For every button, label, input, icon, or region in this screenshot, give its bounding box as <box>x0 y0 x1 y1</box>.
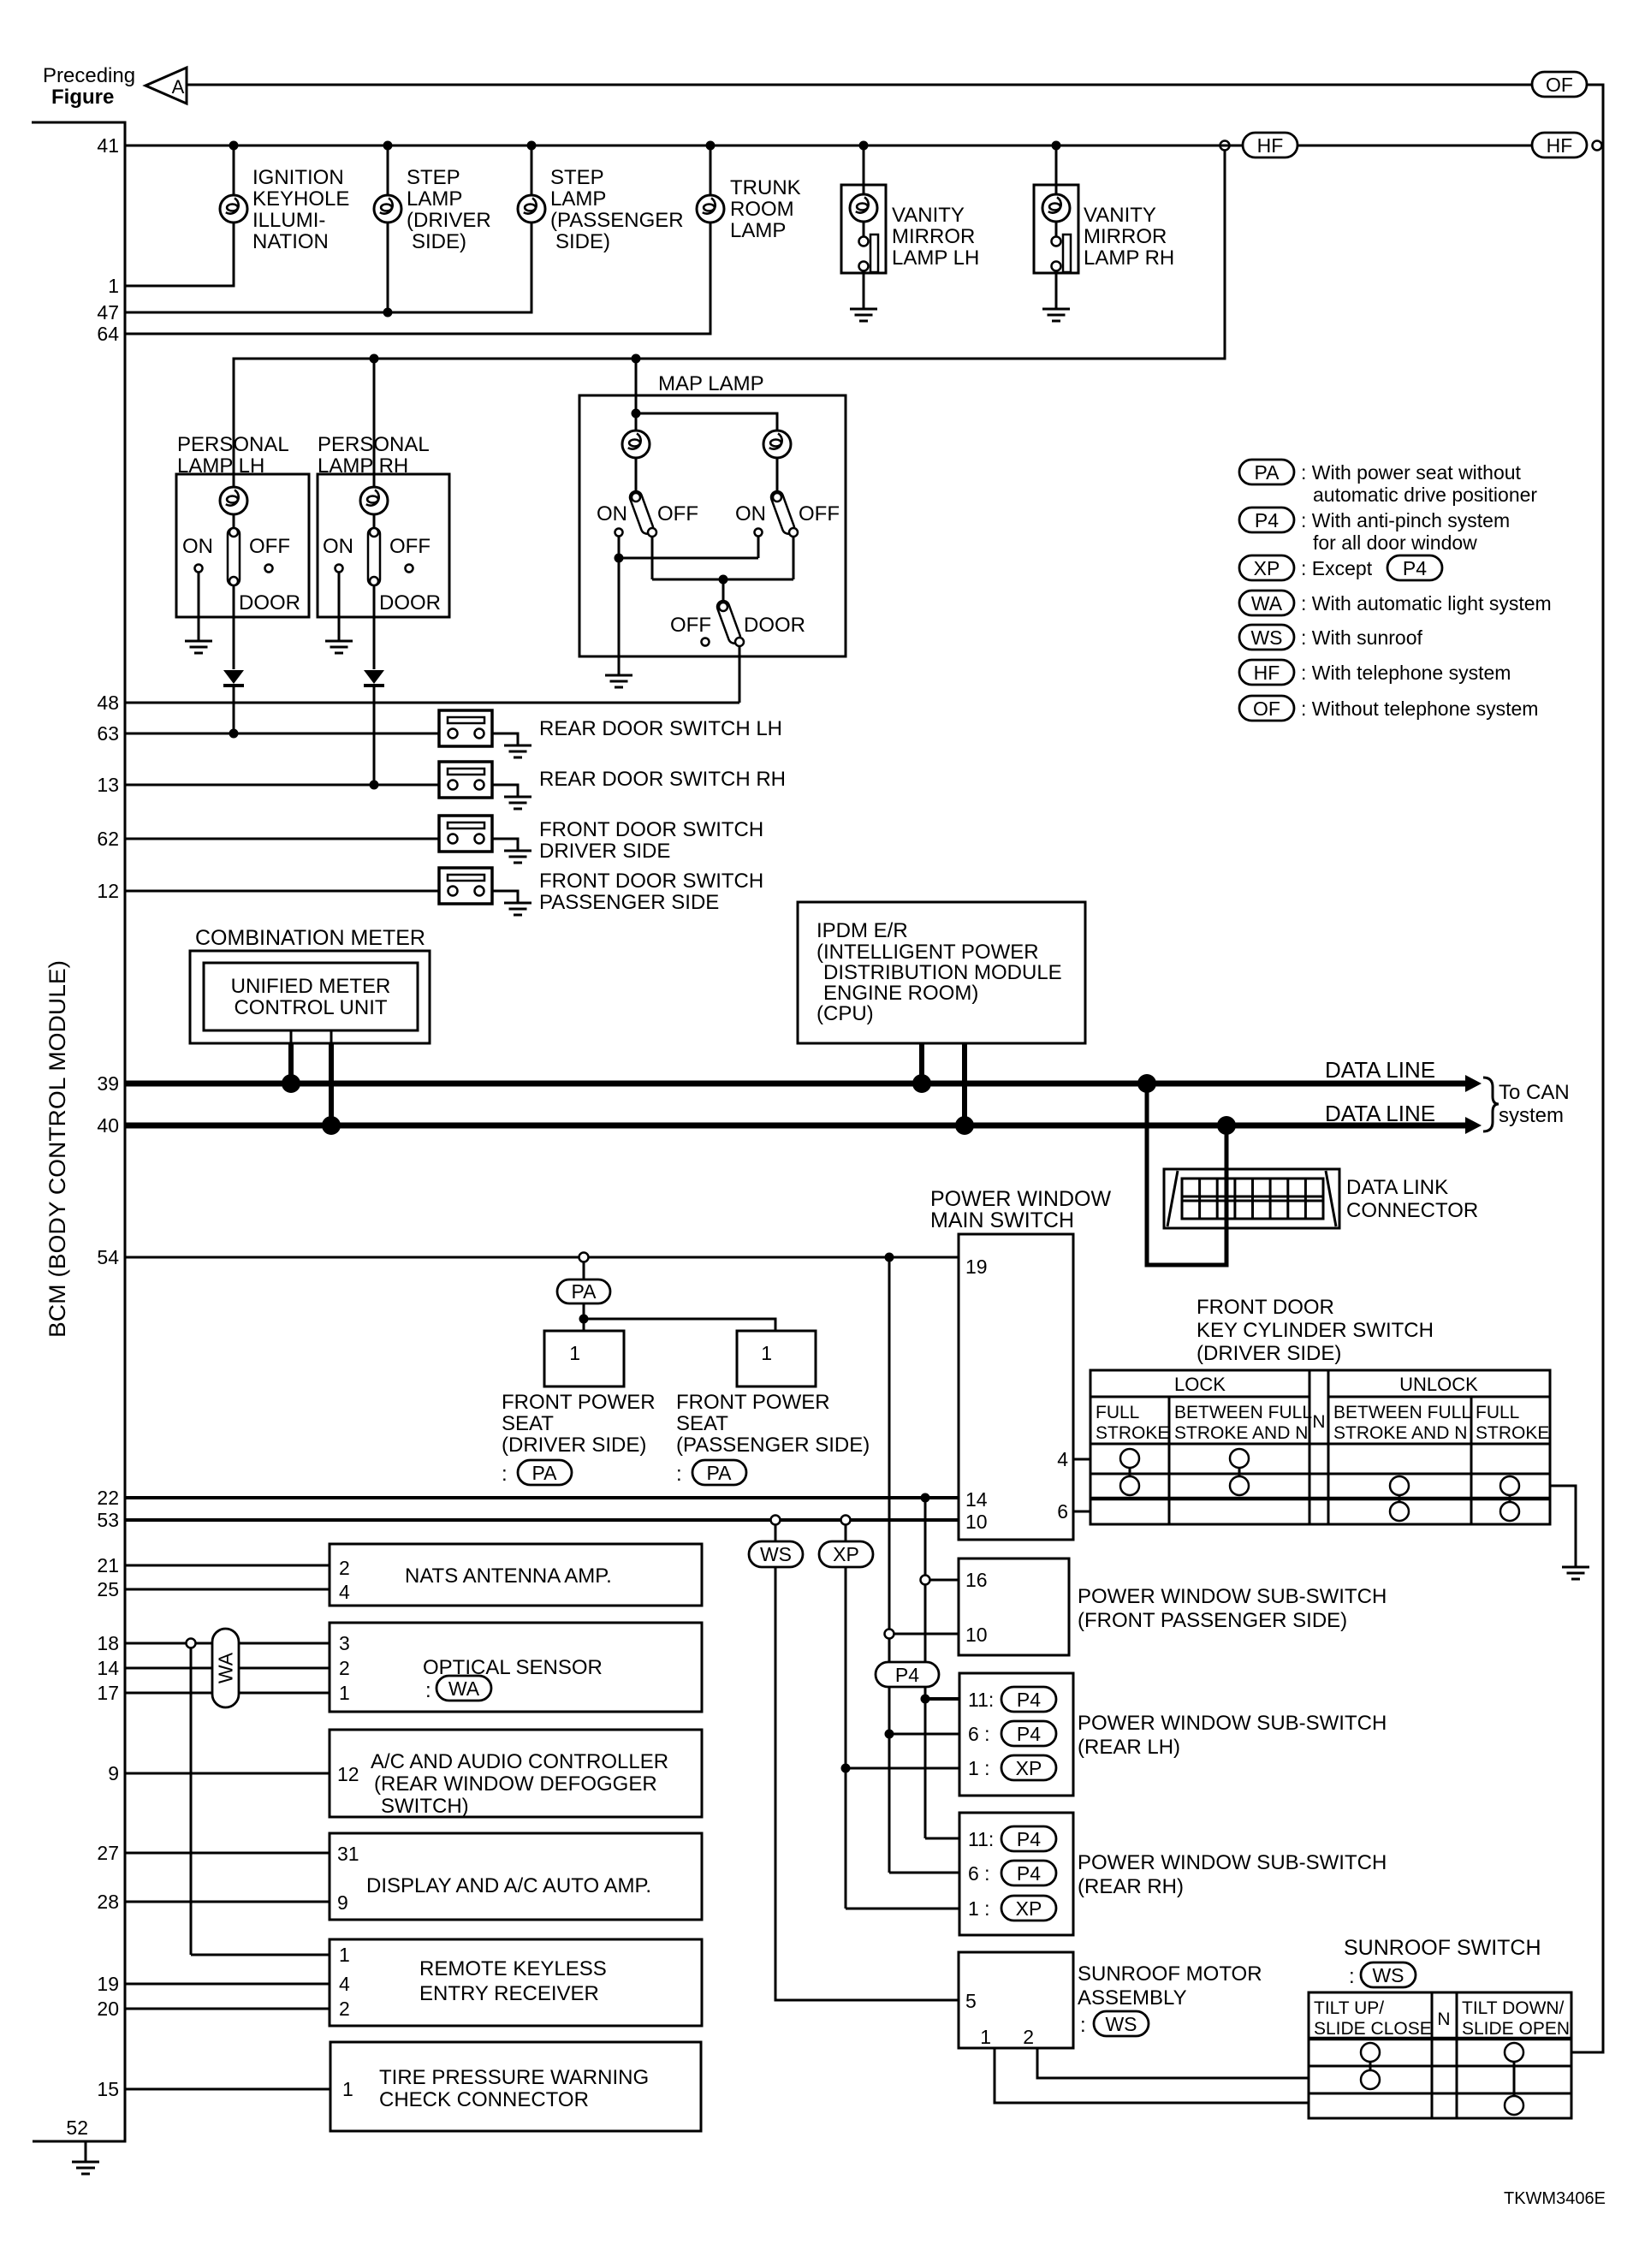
oval tag PA (driver seat) <box>518 1460 572 1485</box>
wire BCM pin 63 <box>125 729 439 739</box>
REAR DOOR SWITCH RH <box>439 762 786 809</box>
svg-text:FRONT POWER: FRONT POWER <box>676 1391 830 1414</box>
wire key cylinder to ground <box>1550 1486 1576 1567</box>
svg-text:P4: P4 <box>895 1664 919 1686</box>
svg-text:ON: ON <box>182 535 213 558</box>
svg-text:PASSENGER SIDE: PASSENGER SIDE <box>539 891 719 914</box>
oval tag WS (sunroof motor) <box>1094 2011 1149 2036</box>
svg-text:1: 1 <box>569 1342 580 1364</box>
wire meter to data line 39 <box>290 1030 293 1084</box>
svg-text:ROOM: ROOM <box>730 198 794 221</box>
svg-text:14: 14 <box>965 1488 988 1511</box>
FRONT DOOR SWITCH PASSENGER SIDE <box>439 868 763 915</box>
wire BCM pin 48 <box>125 702 739 704</box>
svg-text:P4: P4 <box>1017 1689 1041 1711</box>
svg-text:6: 6 <box>1057 1500 1068 1523</box>
svg-text:Figure: Figure <box>51 86 114 109</box>
svg-text:10: 10 <box>965 1624 988 1646</box>
svg-text:WS: WS <box>1105 2013 1137 2035</box>
FRONT DOOR SWITCH DRIVER SIDE <box>439 816 763 863</box>
svg-text:BCM (BODY CONTROL MODULE): BCM (BODY CONTROL MODULE) <box>45 960 70 1338</box>
svg-text:: With anti-pinch system: : With anti-pinch system <box>1301 509 1510 531</box>
svg-text:OFF: OFF <box>670 614 711 637</box>
lamp TRUNK ROOM LAMP <box>697 145 801 242</box>
svg-text:2: 2 <box>339 1998 350 2020</box>
legend P4 <box>1239 508 1510 554</box>
svg-text:(REAR RH): (REAR RH) <box>1078 1875 1184 1898</box>
svg-text:FULL: FULL <box>1476 1403 1519 1422</box>
svg-text:LAMP: LAMP <box>407 187 462 211</box>
svg-text:19: 19 <box>965 1256 988 1278</box>
svg-text:XP: XP <box>1016 1897 1042 1920</box>
svg-text:NATION: NATION <box>252 230 329 253</box>
lamp VANITY MIRROR LAMP LH <box>841 145 979 309</box>
wire BCM pin 53 <box>125 1518 959 1522</box>
wire data line taps to data link connector <box>1147 1084 1226 1265</box>
FRONT POWER SEAT (DRIVER SIDE) <box>502 1331 656 1486</box>
svg-text:9: 9 <box>108 1762 119 1784</box>
svg-text:: With power seat without: : With power seat without <box>1301 461 1522 484</box>
svg-text:REAR DOOR SWITCH LH: REAR DOOR SWITCH LH <box>539 717 782 740</box>
svg-text:18: 18 <box>97 1632 119 1654</box>
wire BCM pin 47 <box>125 223 531 312</box>
wire rear RH pin 1 (XP) <box>846 1908 959 1910</box>
svg-text:POWER WINDOW SUB-SWITCH: POWER WINDOW SUB-SWITCH <box>1078 1851 1387 1874</box>
svg-text:VANITY: VANITY <box>892 204 965 227</box>
svg-text:5: 5 <box>965 1990 977 2012</box>
svg-text:UNIFIED METER: UNIFIED METER <box>231 975 391 998</box>
ground vanity LH <box>850 309 877 321</box>
svg-text:DOOR: DOOR <box>744 614 805 637</box>
svg-text:11:: 11: <box>968 1828 994 1850</box>
svg-text:28: 28 <box>97 1891 119 1913</box>
oval tag P4 (branch pair) <box>876 1662 939 1687</box>
key cylinder contacts UNLOCK between <box>1390 1476 1409 1521</box>
POWER WINDOW SUB-SWITCH (REAR RH) <box>959 1813 1387 1935</box>
svg-text:: Except: : Except <box>1301 557 1373 579</box>
wire map lamp ON bus <box>615 554 759 676</box>
svg-text:(DRIVER SIDE): (DRIVER SIDE) <box>1197 1342 1341 1365</box>
junction map lamp tap <box>632 354 641 396</box>
legend XP <box>1239 555 1442 580</box>
svg-text:HF: HF <box>1547 134 1573 157</box>
wire XP down <box>845 1567 847 1909</box>
wire BCM pin 14 <box>125 1667 330 1670</box>
node pin 16 branch <box>921 1576 959 1585</box>
svg-text:TIRE PRESSURE WARNING: TIRE PRESSURE WARNING <box>379 2066 649 2089</box>
SUNROOF MOTOR ASSEMBLY <box>959 1952 1262 2048</box>
svg-text:PA: PA <box>707 1462 733 1484</box>
junction rear LH pin 1 (XP) <box>841 1764 960 1773</box>
svg-text:4: 4 <box>339 1581 350 1603</box>
svg-text:FRONT DOOR SWITCH: FRONT DOOR SWITCH <box>539 870 763 893</box>
svg-text:ENGINE ROOM): ENGINE ROOM) <box>823 982 978 1005</box>
svg-text:4: 4 <box>1057 1448 1068 1470</box>
svg-text:P4: P4 <box>1017 1862 1041 1885</box>
svg-text:TRUNK: TRUNK <box>730 176 801 199</box>
svg-text:P4: P4 <box>1255 509 1279 531</box>
REAR DOOR SWITCH LH <box>439 710 782 757</box>
junction rear LH pin 11 <box>921 1695 960 1704</box>
svg-text:48: 48 <box>97 692 119 714</box>
wire BCM pin 13 <box>125 781 439 790</box>
lamp STEP LAMP (PASSENGER SIDE) <box>518 145 684 253</box>
key cylinder switch table <box>1090 1370 1550 1524</box>
NATS ANTENNA AMP. <box>330 1544 702 1606</box>
svg-text:41: 41 <box>97 134 119 157</box>
svg-text:ASSEMBLY: ASSEMBLY <box>1078 1986 1187 2010</box>
wire BCM pin 41 rail <box>125 145 1243 147</box>
svg-text:53: 53 <box>97 1509 119 1531</box>
svg-text:SWITCH): SWITCH) <box>381 1795 469 1818</box>
svg-text:1: 1 <box>108 275 119 297</box>
wire BCM pin 64 <box>125 223 710 334</box>
svg-text:OF: OF <box>1253 698 1280 720</box>
svg-text:LAMP RH: LAMP RH <box>1084 246 1174 270</box>
BCM (Body Control Module) outline <box>32 122 125 2141</box>
ground BCM pin 52 <box>72 2141 99 2174</box>
wire BCM pin 9 <box>125 1772 330 1775</box>
svg-text:DOOR: DOOR <box>379 591 441 614</box>
ground key cylinder switch <box>1562 1567 1589 1579</box>
svg-text:SUNROOF MOTOR: SUNROOF MOTOR <box>1078 1962 1262 1986</box>
diode personal lamp LH <box>223 670 244 733</box>
svg-text:LAMP: LAMP <box>730 219 786 242</box>
svg-text:1: 1 <box>339 1682 350 1704</box>
svg-text:STROKE AND N: STROKE AND N <box>1333 1423 1467 1443</box>
wire meter to data line 40 <box>330 1030 333 1125</box>
oval tag OF (top right) <box>1532 72 1587 97</box>
svg-text::: : <box>1080 2014 1086 2037</box>
svg-text:DISPLAY AND A/C AUTO AMP.: DISPLAY AND A/C AUTO AMP. <box>366 1874 651 1897</box>
svg-text:BETWEEN FULL: BETWEEN FULL <box>1333 1403 1471 1422</box>
junction rear LH pin 6 <box>885 1730 960 1739</box>
svg-text:6 :: 6 : <box>968 1723 990 1745</box>
svg-text:SEAT: SEAT <box>502 1412 554 1435</box>
wire sunroof motor pin 1 to switch <box>995 2048 1309 2103</box>
svg-text:3: 3 <box>339 1632 350 1654</box>
svg-text:STROKE: STROKE <box>1096 1423 1169 1443</box>
wire sunroof motor pin 2 to switch <box>1037 2048 1309 2078</box>
wire BCM pin 27 <box>125 1852 330 1855</box>
ground personal lamp RH <box>325 641 353 653</box>
svg-text:2: 2 <box>1023 2026 1034 2048</box>
svg-text:NATS ANTENNA AMP.: NATS ANTENNA AMP. <box>405 1564 612 1588</box>
svg-text:XP: XP <box>1254 557 1280 579</box>
svg-text:47: 47 <box>97 301 119 324</box>
svg-text::: : <box>502 1463 508 1486</box>
svg-text:DATA LINK: DATA LINK <box>1346 1176 1448 1199</box>
junction lamp taps on line 41 <box>229 141 1061 151</box>
svg-text:STEP: STEP <box>550 166 604 189</box>
svg-text:(REAR LH): (REAR LH) <box>1078 1736 1180 1759</box>
wire second rail (interior lamp feed) <box>234 150 1225 487</box>
svg-text::: : <box>1349 1965 1355 1988</box>
svg-text:for all door window: for all door window <box>1313 531 1477 554</box>
wire BCM pin 1 <box>125 223 234 286</box>
svg-text:ON: ON <box>323 535 353 558</box>
key cylinder contacts LOCK between <box>1230 1449 1249 1495</box>
oval tag WS (sunroof switch) <box>1361 1962 1416 1987</box>
junctions data line 39 <box>282 1074 1156 1093</box>
svg-text:(INTELLIGENT POWER: (INTELLIGENT POWER <box>817 941 1039 964</box>
svg-text:LAMP: LAMP <box>550 187 606 211</box>
svg-text:6 :: 6 : <box>968 1862 990 1885</box>
svg-text:62: 62 <box>97 828 119 850</box>
legend WA <box>1239 591 1552 615</box>
lamp IGNITION KEYHOLE ILLUMINATION <box>220 145 349 253</box>
svg-text:PERSONAL: PERSONAL <box>177 433 289 456</box>
svg-text:ENTRY RECEIVER: ENTRY RECEIVER <box>419 1982 599 2005</box>
svg-text:LAMP LH: LAMP LH <box>892 246 979 270</box>
svg-text:16: 16 <box>965 1569 988 1591</box>
wire BCM pin 15 <box>125 2088 330 2091</box>
svg-text:OFF: OFF <box>249 535 290 558</box>
BCM pin number labels <box>66 134 119 2139</box>
svg-text:(REAR WINDOW DEFOGGER: (REAR WINDOW DEFOGGER <box>374 1772 657 1796</box>
wire IPDM to data line 40 <box>962 1043 967 1125</box>
svg-text:15: 15 <box>97 2078 119 2100</box>
oval tag WA (optical sensor) <box>436 1676 491 1701</box>
svg-text:REMOTE KEYLESS: REMOTE KEYLESS <box>419 1957 607 1980</box>
oval tag WS <box>749 1541 803 1567</box>
wire rear RH pin 6 <box>889 1872 959 1874</box>
DISPLAY AND A/C AUTO AMP. <box>330 1833 702 1920</box>
svg-text:PA: PA <box>1255 461 1280 484</box>
svg-text:DRIVER SIDE: DRIVER SIDE <box>539 840 670 863</box>
A/C AND AUDIO CONTROLLER <box>330 1730 702 1818</box>
svg-text:4: 4 <box>339 1973 350 1995</box>
svg-text:XP: XP <box>833 1543 859 1565</box>
wire IPDM to data line 39 <box>919 1043 924 1084</box>
svg-text:VANITY: VANITY <box>1084 204 1156 227</box>
svg-text:52: 52 <box>66 2117 88 2139</box>
svg-text:automatic drive positioner: automatic drive positioner <box>1313 484 1537 506</box>
legend OF <box>1239 696 1538 721</box>
svg-text:TKWM3406E: TKWM3406E <box>1504 2189 1606 2208</box>
wire main switch pin 4 to key cylinder <box>1073 1458 1090 1461</box>
svg-text:TILT UP/: TILT UP/ <box>1314 1998 1384 2018</box>
diode personal lamp RH <box>364 670 384 785</box>
svg-text:1 :: 1 : <box>968 1897 990 1920</box>
svg-text:OFF: OFF <box>799 502 840 525</box>
svg-text:63: 63 <box>97 722 119 745</box>
svg-text:1: 1 <box>339 1944 350 1966</box>
oval tag WA (vertical) <box>212 1629 239 1707</box>
wire BCM pin 62 <box>125 838 439 840</box>
ground map lamp <box>605 675 632 687</box>
svg-text:17: 17 <box>97 1682 119 1704</box>
junction pin47 / step lamp driver <box>383 223 393 318</box>
svg-text:2: 2 <box>339 1657 350 1679</box>
FRONT POWER SEAT (PASSENGER SIDE) <box>676 1331 870 1486</box>
svg-text:19: 19 <box>97 1973 119 1995</box>
wire BCM pin 20 <box>125 2008 330 2010</box>
svg-text:40: 40 <box>97 1114 119 1137</box>
svg-text:WA: WA <box>1251 592 1283 614</box>
svg-text:KEY CYLINDER SWITCH: KEY CYLINDER SWITCH <box>1197 1319 1434 1342</box>
svg-text:39: 39 <box>97 1072 119 1095</box>
wire BCM pin 54 <box>125 1256 959 1259</box>
svg-text:54: 54 <box>97 1246 119 1268</box>
legend WS <box>1239 625 1422 650</box>
BCM label <box>45 960 70 1338</box>
svg-text:(CPU): (CPU) <box>817 1002 874 1025</box>
svg-text:21: 21 <box>97 1554 119 1576</box>
svg-text:: Without telephone system: : Without telephone system <box>1301 698 1538 720</box>
switch map lamp LH (ON/OFF) <box>597 490 698 579</box>
wire WA branch to remote keyless pin 1 <box>191 1954 330 1956</box>
svg-text:10: 10 <box>965 1511 988 1533</box>
svg-text:20: 20 <box>97 1998 119 2020</box>
node XP branch <box>841 1516 851 1542</box>
lamp STEP LAMP (DRIVER SIDE) <box>374 145 491 253</box>
brace To CAN system <box>1483 1078 1570 1131</box>
svg-text:SIDE): SIDE) <box>412 230 466 253</box>
svg-text::: : <box>676 1463 682 1486</box>
oval tag P4 (rear LH pin 11) <box>1001 1687 1056 1712</box>
svg-text:To CAN: To CAN <box>1499 1081 1570 1104</box>
svg-text:TILT DOWN/: TILT DOWN/ <box>1462 1998 1565 2018</box>
oval tag HF (right) <box>1532 133 1587 157</box>
svg-text:DATA LINE: DATA LINE <box>1325 1101 1435 1126</box>
wire BCM pin 17 <box>125 1692 330 1695</box>
svg-text:FRONT POWER: FRONT POWER <box>502 1391 656 1414</box>
wire BCM pin 39 data line <box>125 1057 1482 1092</box>
svg-text:BETWEEN FULL: BETWEEN FULL <box>1174 1403 1312 1422</box>
sunroof switch contacts tilt down <box>1505 2043 1523 2115</box>
svg-text:WS: WS <box>1250 626 1282 649</box>
wire BCM pin 12 <box>125 890 439 893</box>
wire map lamp OFF bus <box>652 575 793 603</box>
svg-text:25: 25 <box>97 1578 119 1600</box>
svg-text:REAR DOOR SWITCH RH: REAR DOOR SWITCH RH <box>539 768 786 791</box>
junction pin54 to sub-switch vertical A <box>885 1253 894 1873</box>
wire main switch pin 6 to key cylinder <box>1073 1511 1090 1513</box>
wire OF to right edge, down to sunroof switch <box>1571 85 1603 2052</box>
svg-text:LOCK: LOCK <box>1174 1374 1226 1395</box>
oval tag P4 (rear LH pin 6) <box>1001 1721 1056 1746</box>
svg-text:WS: WS <box>760 1543 792 1565</box>
wire between HF tags <box>1298 145 1532 147</box>
svg-text:ON: ON <box>597 502 627 525</box>
svg-text:FULL: FULL <box>1096 1403 1139 1422</box>
svg-text:SEAT: SEAT <box>676 1412 728 1435</box>
svg-text:13: 13 <box>97 774 119 796</box>
svg-text:A: A <box>172 76 185 98</box>
lamp VANITY MIRROR LAMP RH <box>1034 145 1174 309</box>
TIRE PRESSURE WARNING CHECK CONNECTOR <box>330 2042 701 2131</box>
svg-text:N: N <box>1437 2010 1450 2029</box>
svg-text:N: N <box>1312 1412 1325 1432</box>
node WS branch <box>771 1516 781 1542</box>
svg-text:1: 1 <box>342 2078 353 2100</box>
svg-text:system: system <box>1499 1104 1564 1127</box>
ground vanity RH <box>1042 309 1070 321</box>
svg-text:UNLOCK: UNLOCK <box>1399 1374 1478 1395</box>
IPDM E/R box <box>798 902 1085 1043</box>
TKWM3406E <box>1504 2189 1606 2208</box>
map lamp internal feed <box>632 395 778 430</box>
svg-text:STROKE: STROKE <box>1476 1423 1549 1443</box>
POWER WINDOW MAIN SWITCH <box>930 1187 1111 1540</box>
POWER WINDOW SUB-SWITCH (FRONT PASSENGER SIDE) <box>959 1559 1387 1655</box>
COMBINATION METER <box>190 926 430 1043</box>
oval tag P4 (rear RH pin 11) <box>1001 1826 1056 1851</box>
oval tag XP <box>819 1541 873 1567</box>
oval tag PA (branch) <box>557 1279 610 1303</box>
svg-text:STEP: STEP <box>407 166 460 189</box>
oval tag P4 (rear RH pin 6) <box>1001 1861 1056 1885</box>
wire BCM pin 18 <box>125 1642 330 1645</box>
svg-text:XP: XP <box>1016 1757 1042 1779</box>
wire rear RH pin 11 <box>925 1838 959 1840</box>
svg-text:(PASSENGER: (PASSENGER <box>550 209 684 232</box>
svg-text:(DRIVER: (DRIVER <box>407 209 491 232</box>
svg-text:WA: WA <box>215 1652 237 1683</box>
sunroof switch contacts tilt up <box>1361 2043 1380 2089</box>
svg-text:27: 27 <box>97 1842 119 1864</box>
svg-text:WS: WS <box>1372 1964 1404 1986</box>
Preceding Figure label <box>43 64 135 109</box>
svg-text:MIRROR: MIRROR <box>1084 225 1167 248</box>
oval tag XP (rear LH pin 1) <box>1001 1755 1056 1780</box>
svg-text:MIRROR: MIRROR <box>892 225 975 248</box>
wire BCM pin 40 data line <box>125 1101 1482 1134</box>
DATA LINK CONNECTOR <box>1164 1169 1478 1228</box>
node WA branch (open circle on line 18) <box>187 1639 196 1956</box>
svg-text:POWER WINDOW: POWER WINDOW <box>930 1187 1111 1211</box>
svg-text:MAIN SWITCH: MAIN SWITCH <box>930 1208 1074 1232</box>
svg-text:SIDE): SIDE) <box>555 230 610 253</box>
wire BCM pin 19 <box>125 1983 330 1986</box>
svg-text:KEYHOLE: KEYHOLE <box>252 187 349 211</box>
svg-text:ILLUMI-: ILLUMI- <box>252 209 325 232</box>
svg-text:Preceding: Preceding <box>43 64 135 87</box>
svg-text:IPDM E/R: IPDM E/R <box>817 919 908 942</box>
svg-text:P4: P4 <box>1017 1828 1041 1850</box>
svg-text:(FRONT PASSENGER SIDE): (FRONT PASSENGER SIDE) <box>1078 1609 1347 1632</box>
switch map lamp RH (ON/OFF) <box>735 490 840 579</box>
svg-text:POWER WINDOW SUB-SWITCH: POWER WINDOW SUB-SWITCH <box>1078 1585 1387 1608</box>
oval tag HF (left) <box>1243 133 1298 157</box>
svg-text:(DRIVER SIDE): (DRIVER SIDE) <box>502 1434 646 1457</box>
wire PA to power seats <box>579 1303 776 1331</box>
svg-text:1 :: 1 : <box>968 1757 990 1779</box>
svg-text:CHECK CONNECTOR: CHECK CONNECTOR <box>379 2088 589 2111</box>
junctions data line 40 <box>322 1116 1236 1135</box>
svg-text:POWER WINDOW SUB-SWITCH: POWER WINDOW SUB-SWITCH <box>1078 1712 1387 1735</box>
bulb map lamp LH <box>622 430 650 493</box>
svg-text:SLIDE OPEN: SLIDE OPEN <box>1462 2019 1570 2039</box>
legend PA <box>1239 460 1537 506</box>
svg-text:STROKE AND N: STROKE AND N <box>1174 1423 1308 1443</box>
svg-text:9: 9 <box>337 1891 348 1914</box>
SUNROOF SWITCH label <box>1344 1936 1541 1988</box>
POWER WINDOW SUB-SWITCH (REAR LH) <box>959 1673 1387 1796</box>
svg-text:1: 1 <box>761 1342 772 1364</box>
junction personal lamp RH tap <box>370 354 379 488</box>
svg-text:WA: WA <box>448 1677 480 1700</box>
svg-text:FRONT DOOR: FRONT DOOR <box>1197 1296 1334 1319</box>
svg-text:OFF: OFF <box>657 502 698 525</box>
svg-text:31: 31 <box>337 1843 359 1865</box>
svg-text:22: 22 <box>97 1487 119 1509</box>
svg-text:: With telephone system: : With telephone system <box>1301 662 1511 684</box>
svg-text:P4: P4 <box>1403 557 1427 579</box>
wire BCM pin 25 <box>125 1588 330 1591</box>
svg-text:PA: PA <box>532 1462 558 1484</box>
